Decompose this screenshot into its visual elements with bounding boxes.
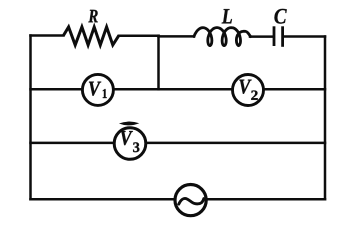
- wire: resistor to node A: [119, 34, 159, 37]
- voltmeter V1 circle: [82, 74, 113, 105]
- inductor L coil: [194, 28, 251, 46]
- voltmeter V3 circle: [114, 128, 146, 160]
- wire: top-left to resistor: [31, 34, 64, 37]
- capacitor C right plate: [281, 26, 284, 47]
- wire: inductor to capacitor: [250, 35, 273, 38]
- wire: middle vertical from node A: [157, 36, 160, 90]
- wire: voltmeter row V3: [31, 142, 326, 145]
- AC sine symbol: [179, 198, 204, 204]
- label V3: [121, 131, 133, 145]
- label C: [274, 9, 286, 24]
- wire: voltmeter row V1 V2: [31, 88, 326, 91]
- wire: node A to inductor: [159, 35, 195, 38]
- resistor R: [64, 27, 119, 45]
- ink blob atop V3: [119, 122, 139, 126]
- label V2: [239, 80, 251, 94]
- capacitor C left plate: [273, 26, 276, 46]
- AC source circle: [175, 185, 206, 216]
- wire: capacitor to top-right corner: [284, 35, 325, 38]
- wire: right vertical branch: [324, 37, 327, 200]
- label R: [88, 10, 97, 22]
- voltmeter V2 circle: [233, 75, 264, 106]
- label V1: [89, 82, 101, 96]
- label L: [222, 9, 232, 23]
- wire: bottom branch: [31, 198, 326, 201]
- wire: left vertical branch: [29, 36, 32, 200]
